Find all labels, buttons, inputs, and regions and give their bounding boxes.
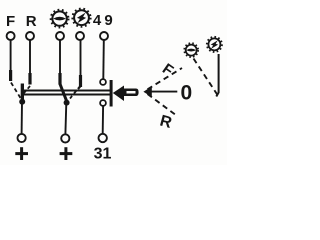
actuator knob (124, 89, 139, 97)
svg-text:9: 9 (104, 12, 112, 29)
contact tip lamp2 (79, 75, 82, 87)
slider end plate (110, 80, 113, 107)
wire to + (left) (21, 102, 23, 134)
svg-text:F: F (6, 13, 15, 30)
svg-text:0: 0 (180, 81, 192, 104)
fixed contact circle 49 (above bar) (100, 79, 106, 85)
terminal circle + (middle) (61, 134, 69, 142)
indicator lamp icon R2 (flash symbol) (207, 37, 222, 52)
position line 0 (solid) (151, 91, 178, 93)
svg-text:31: 31 (94, 146, 112, 163)
switch slider bar (lower line) (22, 94, 110, 96)
contact tip R (28, 73, 31, 85)
contact tip lamp1 (58, 73, 61, 85)
svg-text:R: R (26, 13, 37, 30)
terminal circle F (7, 32, 15, 40)
dashed path F-tip to pin (11, 83, 21, 99)
switch slider bar (upper line) (22, 90, 110, 92)
label + (left) (15, 147, 28, 160)
position diagram vertex arrow (143, 86, 151, 97)
fixed contact circle 31 (below bar) (100, 100, 106, 106)
contact foot lamp2 (78, 86, 81, 89)
wire R (29, 41, 31, 76)
terminal circle 49 (100, 32, 108, 40)
actuator arrowhead (113, 86, 124, 102)
terminal circle lamp1 (56, 32, 64, 40)
wire to 31 (102, 106, 104, 133)
position line R (dashed) (148, 94, 177, 116)
dashed path lamp2-tip to vertex (70, 91, 77, 99)
junction dot middle (64, 100, 70, 106)
wire to + (middle) (64, 103, 67, 134)
indicator lamp icon R1 (lens symbol) (185, 43, 198, 56)
position line F (dashed) (148, 68, 183, 89)
indicator lamp icon L1 (lens symbol) (51, 10, 68, 27)
moving contact pin (F/R column) (21, 84, 24, 102)
indicator lamp icon L2 (flash symbol) (73, 9, 91, 27)
wire F (10, 41, 12, 73)
wire lamp2 (80, 41, 82, 78)
contact tip F (9, 70, 12, 81)
dashed path R-tip to pin (23, 86, 30, 94)
label + (middle) (60, 147, 73, 160)
terminal circle 31 (99, 134, 107, 142)
terminal circle + (left) (18, 134, 26, 142)
terminal circle lamp2 (76, 32, 84, 40)
moving contact diagonal (lamp column) (60, 84, 67, 102)
wire lamp1 (59, 41, 61, 76)
terminal circle R (26, 32, 34, 40)
svg-text:4: 4 (93, 12, 102, 29)
junction dot left (19, 99, 25, 105)
wire 49 (102, 41, 105, 80)
dashed line lens-lamp to vertex point (194, 59, 218, 95)
solid line flash-lamp down (216, 54, 218, 97)
